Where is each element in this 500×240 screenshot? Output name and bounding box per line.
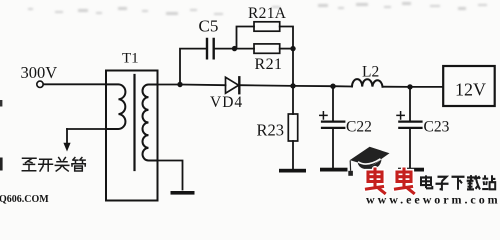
- char 站: [482, 175, 495, 189]
- transformer T1 box: [106, 71, 158, 201]
- mortarboard: [350, 147, 390, 167]
- wire R21 right to node: [280, 48, 293, 50]
- transformer T1 secondary winding: [142, 84, 157, 160]
- wire primary bottom lead out of box: [67, 128, 106, 130]
- svg-text:www.eeworm.com: www.eeworm.com: [366, 193, 500, 207]
- terminal 300V input: [37, 81, 43, 87]
- resistor R21: [254, 44, 280, 53]
- cap crown: [358, 160, 382, 170]
- svg-text:R21: R21: [255, 56, 283, 73]
- char 开: [39, 159, 53, 171]
- svg-text:VD4: VD4: [210, 94, 243, 111]
- diode VD4: [226, 77, 239, 93]
- wire main line from secondary top through diode to 12V: [158, 85, 444, 87]
- label + polarity C22: [320, 112, 327, 119]
- tassel knot: [348, 171, 353, 176]
- char 电: [421, 175, 432, 188]
- node junction R21 right: [290, 46, 295, 51]
- transformer T1 primary winding: [106, 84, 125, 129]
- watermark 虫虫 red text: [367, 169, 414, 193]
- ground (R23): [279, 169, 306, 173]
- label 至开关管 (to switching tube) - drawn strokes: [22, 158, 85, 172]
- ground (transformer secondary): [171, 191, 195, 195]
- transformer T1 core: [133, 75, 135, 170]
- node junction C5/R21: [232, 46, 237, 51]
- node junction C23: [407, 84, 412, 89]
- svg-text:L2: L2: [362, 64, 379, 81]
- svg-text:T1: T1: [122, 51, 139, 67]
- char 至: [22, 158, 36, 171]
- arrow to switching tube: [66, 129, 68, 145]
- wire node down to main line: [292, 49, 294, 86]
- svg-text:C5: C5: [199, 17, 219, 36]
- node junction C5 branch: [177, 82, 182, 87]
- node junction C22: [330, 84, 335, 89]
- char 子: [436, 177, 449, 190]
- scan noise top band: [0, 0, 1, 1]
- capacitor C23 electrolytic: [409, 87, 411, 121]
- svg-text:C23: C23: [424, 119, 450, 136]
- wire secondary bottom lead to ground: [158, 161, 183, 190]
- tassel thread: [349, 161, 351, 171]
- svg-text:C22: C22: [346, 119, 372, 136]
- svg-text:R23: R23: [257, 121, 285, 140]
- inductor L2: [352, 79, 383, 87]
- watermark 电子下载站 text: [421, 175, 495, 190]
- char 载: [467, 175, 480, 189]
- svg-text:12V: 12V: [455, 80, 486, 100]
- ground (C22): [320, 168, 348, 172]
- node junction R23: [290, 83, 295, 88]
- white band separation: [358, 159, 381, 164]
- watermark graduation cap logo: [348, 147, 389, 176]
- wire 300V terminal to transformer: [43, 83, 106, 85]
- resistor R23 vertical: [292, 86, 294, 114]
- wire C5 to R21: [215, 48, 254, 50]
- wire C5 branch up: [180, 49, 207, 85]
- capacitor C22 electrolytic: [332, 86, 334, 121]
- output block 12V: [443, 66, 495, 106]
- label + polarity C23: [397, 112, 404, 119]
- char 关: [55, 158, 69, 171]
- svg-text:R21A: R21A: [248, 5, 287, 22]
- resistor R21A with stubs: [237, 27, 294, 49]
- svg-text:300V: 300V: [21, 63, 58, 82]
- svg-text:Q606.COM: Q606.COM: [0, 194, 49, 205]
- capacitor C5: [207, 39, 214, 58]
- ground (C23): [398, 168, 424, 172]
- char 管: [72, 158, 85, 172]
- scan artifact marks left edge: [0, 100, 2, 107]
- char 下: [452, 177, 465, 190]
